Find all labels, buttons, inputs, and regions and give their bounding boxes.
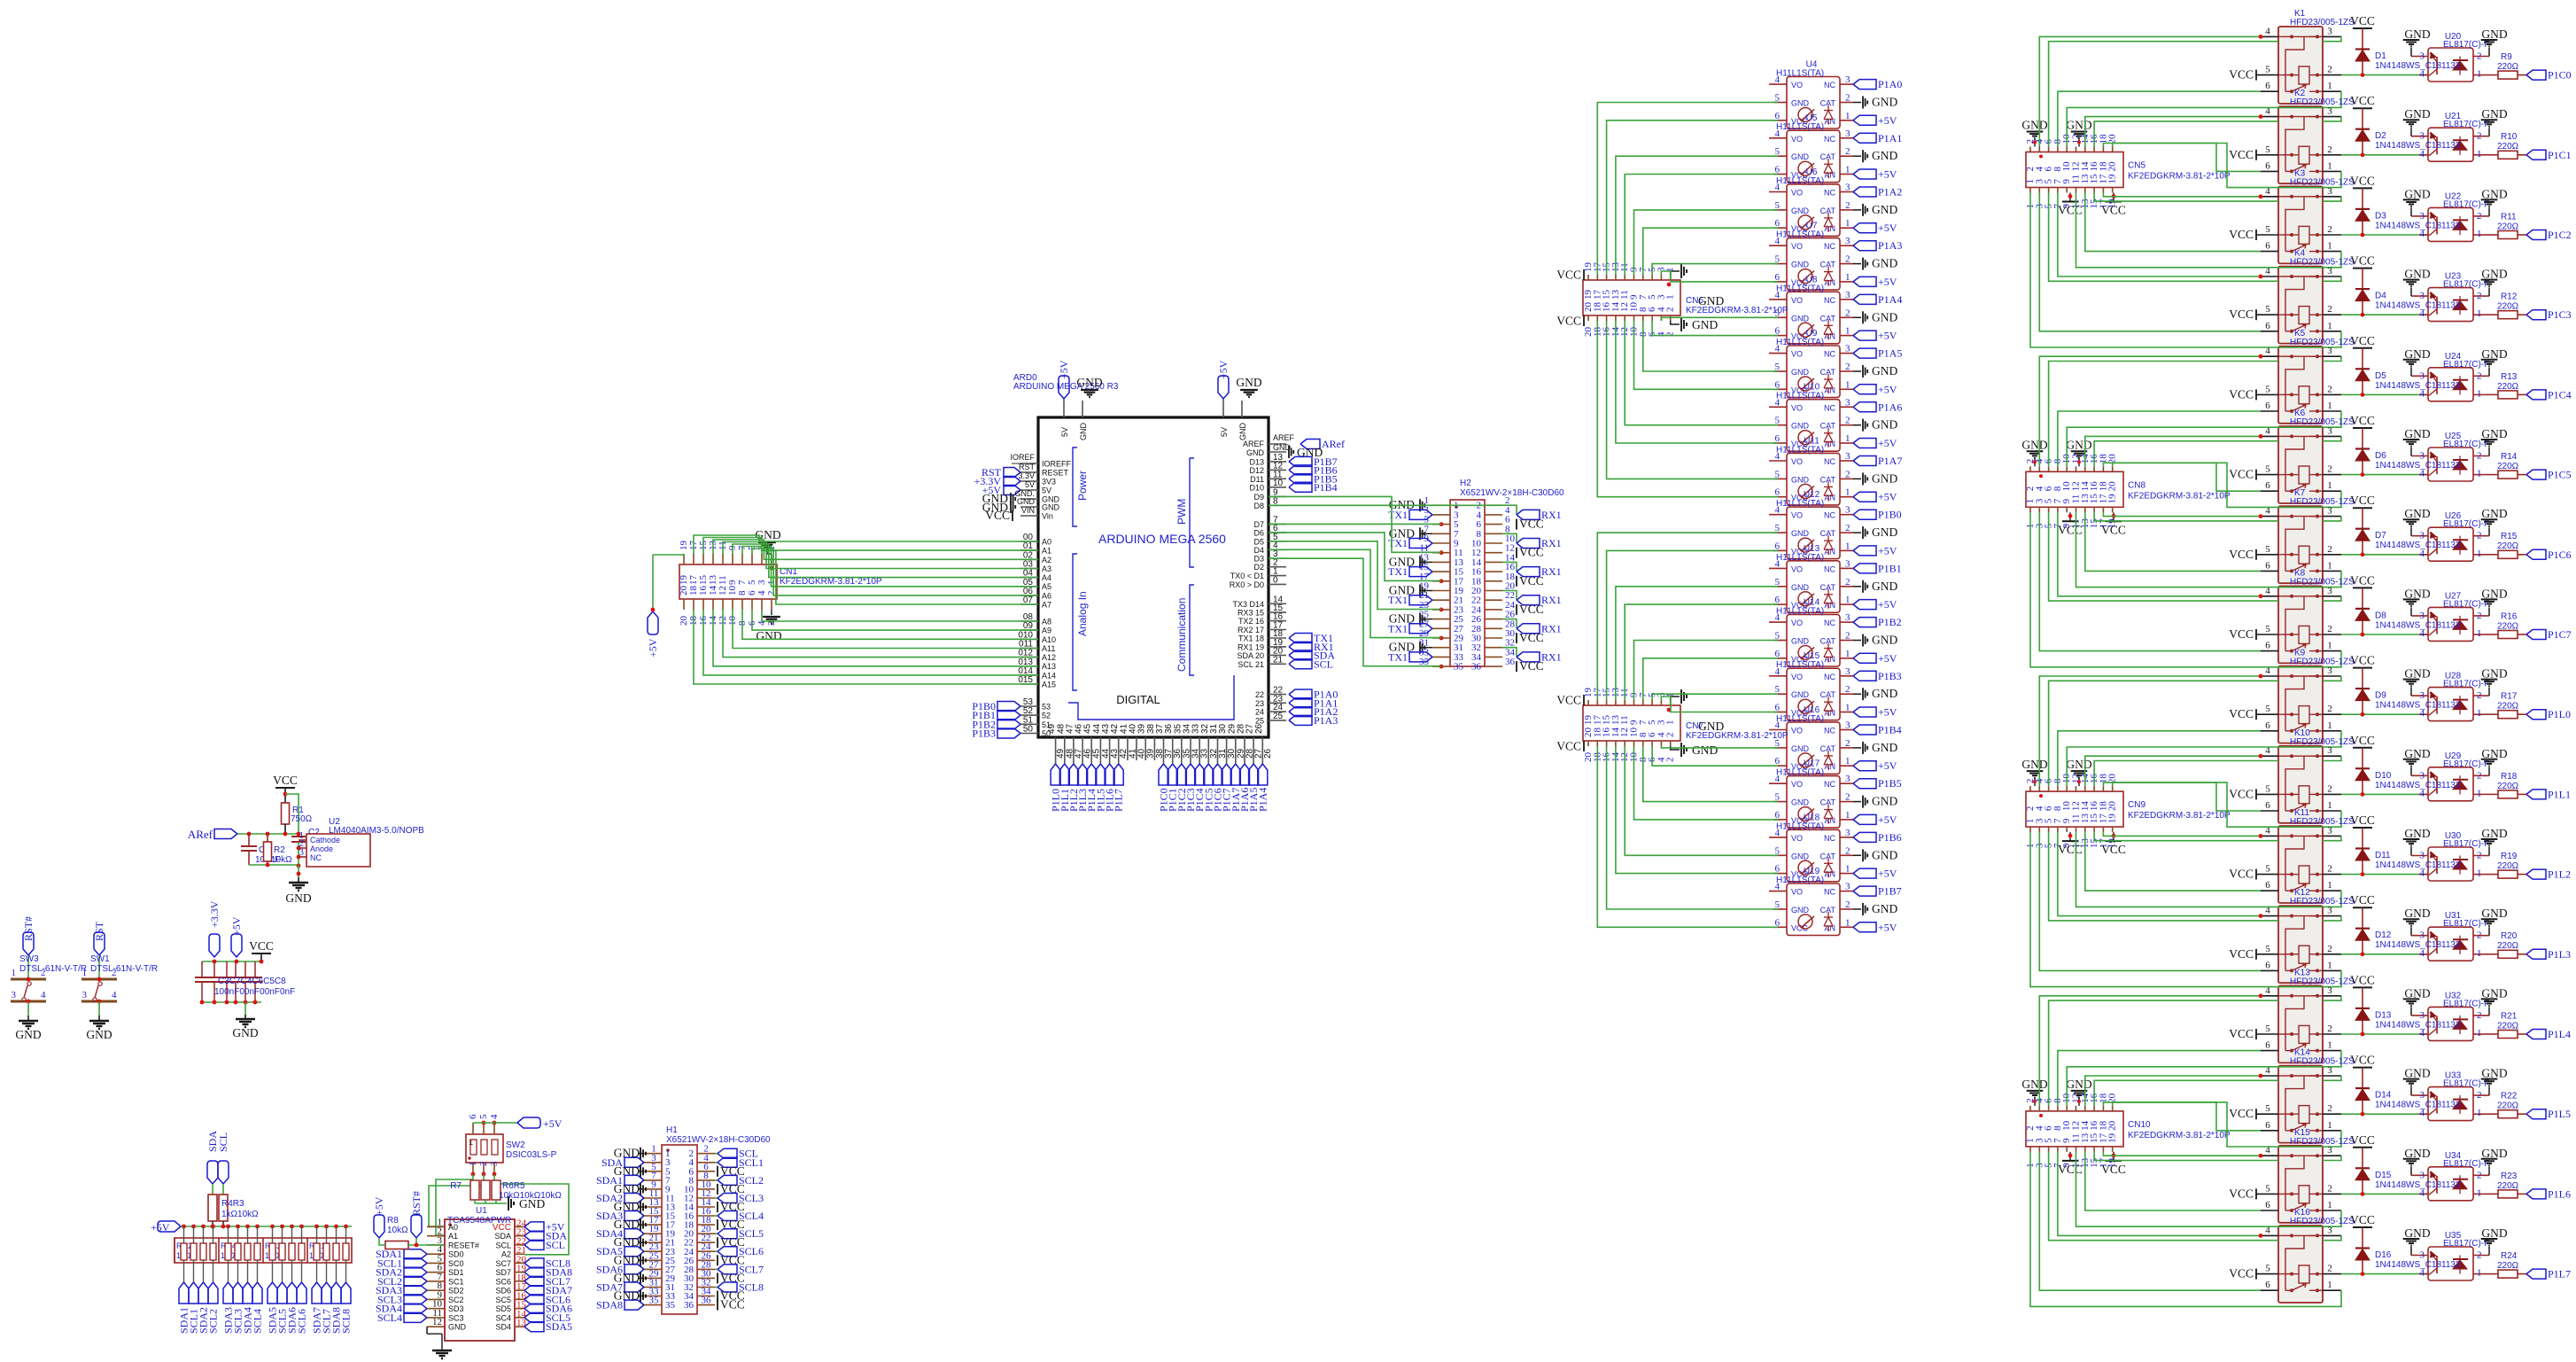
- svg-text:220Ω: 220Ω: [2497, 621, 2519, 631]
- CN6 pin 7 (top): [1642, 275, 1644, 280]
- svg-text:3: 3: [2327, 1065, 2332, 1076]
- CN8 pin 10 (top): [2066, 466, 2068, 471]
- power VCC (CN7 top): [1583, 695, 1585, 705]
- svg-text:+5V: +5V: [1878, 437, 1897, 449]
- svg-text:1: 1: [2477, 708, 2482, 719]
- H2 pin 4 (right): [1485, 514, 1502, 516]
- svg-text:4: 4: [1775, 774, 1781, 784]
- U34 pin 1: [2473, 1193, 2484, 1195]
- svg-text:3: 3: [1845, 505, 1851, 516]
- svg-text:3: 3: [1845, 666, 1851, 677]
- svg-text:1: 1: [1845, 703, 1851, 713]
- H1 pin 21 (left): [644, 1241, 662, 1243]
- U8 pin 1 AN: [1840, 335, 1853, 337]
- resistor element SCL1: [193, 1226, 195, 1243]
- CN6 pin 15 (top): [1606, 275, 1608, 280]
- svg-text:R19: R19: [2501, 852, 2518, 861]
- U22 internal LED: [2453, 219, 2468, 221]
- svg-text:VCC: VCC: [2350, 1213, 2375, 1226]
- U21 pin 4: [2419, 154, 2428, 156]
- svg-text:VCC: VCC: [1519, 603, 1544, 616]
- svg-text:220Ω: 220Ω: [2497, 1261, 2519, 1271]
- net flag P1C7: [1226, 760, 1228, 764]
- svg-text:2: 2: [1845, 523, 1851, 533]
- H2 pin 25 (left): [1432, 619, 1450, 620]
- net flag P1A5: [1253, 760, 1254, 764]
- U25 internal LED: [2453, 459, 2468, 461]
- resistor R13 220ohm: [2484, 393, 2498, 395]
- arduino pin 48 (bottom): [1064, 737, 1066, 760]
- svg-text:VO: VO: [1791, 727, 1803, 735]
- U15 internal symbol: [1798, 699, 1812, 713]
- svg-text:A2: A2: [501, 1250, 511, 1259]
- svg-text:GND: GND: [2404, 347, 2430, 361]
- svg-text:3: 3: [1845, 183, 1851, 193]
- svg-text:220Ω: 220Ω: [2497, 1181, 2519, 1191]
- U12 pin 4 VO: [1769, 514, 1787, 516]
- K5 internal symbol: [2278, 355, 2292, 357]
- K2 internal symbol: [2278, 116, 2292, 118]
- svg-text:NC: NC: [1824, 834, 1835, 843]
- optocoupler U9 H11L1S(TA): [1787, 346, 1840, 398]
- CN6 pin 17 (top): [1596, 275, 1598, 280]
- power VCC (H1 pin 26): [717, 1255, 718, 1265]
- net flag P1L7: [2526, 1269, 2546, 1279]
- CN5 pin 14 (top): [2084, 147, 2086, 152]
- svg-text:D6: D6: [2375, 451, 2386, 461]
- svg-text:GND: GND: [1791, 906, 1810, 914]
- K7 pin 5: [2256, 554, 2278, 556]
- svg-text:4: 4: [1775, 720, 1781, 731]
- svg-text:35: 35: [1454, 662, 1464, 673]
- ground (H2 pin 1): [1420, 504, 1432, 506]
- CN8 pin 11 (bottom): [2076, 507, 2077, 512]
- net flag SDA3: [223, 1282, 233, 1304]
- svg-text:3: 3: [1845, 612, 1851, 623]
- power VCC (H2 pin 18): [1516, 576, 1517, 587]
- CN7 pin 8 (bottom): [1642, 741, 1644, 746]
- wire RST# to switch: [27, 955, 29, 979]
- svg-text:1: 1: [2327, 1040, 2332, 1051]
- U31 pin 3: [2411, 935, 2428, 937]
- svg-text:SC4: SC4: [495, 1313, 511, 1322]
- svg-text:SC3: SC3: [448, 1313, 464, 1322]
- svg-text:EL817(C)-F: EL817(C)-F: [2443, 360, 2489, 370]
- H2 pin 23 (left): [1432, 609, 1450, 611]
- svg-text:H11L1S(TA): H11L1S(TA): [1776, 768, 1824, 778]
- K13 pin 3: [2323, 995, 2341, 997]
- CN9 pin 13 (bottom): [2084, 827, 2086, 832]
- svg-text:Cathode: Cathode: [310, 836, 340, 844]
- svg-text:1kΩ10kΩ: 1kΩ10kΩ: [221, 1210, 259, 1219]
- svg-text:SC7: SC7: [495, 1259, 511, 1268]
- svg-text:VCC: VCC: [2350, 494, 2375, 507]
- svg-text:1N4148WS_C181133: 1N4148WS_C181133: [2375, 1260, 2461, 1270]
- net flag P1C3: [1190, 760, 1191, 764]
- svg-text:1N4148WS_C181133: 1N4148WS_C181133: [2375, 381, 2461, 391]
- svg-text:AN: AN: [1824, 224, 1835, 233]
- svg-text:6: 6: [2265, 401, 2270, 411]
- wire K14 pin2 to U33: [2341, 1113, 2430, 1115]
- svg-text:2: 2: [1845, 362, 1851, 372]
- svg-text:ARDUINO MEGA 2560 R3: ARDUINO MEGA 2560 R3: [1013, 382, 1119, 392]
- svg-text:R23: R23: [2501, 1171, 2518, 1181]
- relay K1 HFD23/005-1ZS: [2278, 27, 2323, 104]
- svg-text:AN: AN: [1824, 601, 1835, 610]
- U15 pin 6 VCC: [1773, 712, 1787, 713]
- wire bus CN1 bottom pins to A8-A15: [694, 610, 1038, 684]
- K13 pin 5: [2256, 1033, 2278, 1035]
- connector CN9 KF2EDGKRM-3.81-2*10P: [2026, 791, 2123, 827]
- U1 pin 1 A0: [427, 1226, 445, 1227]
- relay K7 HFD23/005-1ZS: [2278, 506, 2323, 583]
- arduino pin 45 (bottom): [1090, 737, 1092, 760]
- CN5 pin 16 (top): [2093, 147, 2095, 152]
- wire K8 pin2 to U27: [2341, 634, 2430, 635]
- CN10 pin 18 (top): [2102, 1106, 2104, 1111]
- K10 pin 1: [2323, 810, 2341, 812]
- svg-text:VO: VO: [1791, 619, 1803, 627]
- svg-text:3V3: 3V3: [1042, 478, 1056, 486]
- CN7 pin 10 (bottom): [1633, 741, 1635, 746]
- svg-text:P1A2: P1A2: [1878, 186, 1902, 198]
- U9 internal symbol: [1798, 377, 1812, 391]
- K11 pin 1: [2323, 890, 2341, 891]
- K14 pin 3: [2323, 1075, 2341, 1077]
- svg-text:D3: D3: [2375, 211, 2386, 221]
- net flag P1C3: [2526, 310, 2546, 320]
- svg-text:NC: NC: [1824, 888, 1835, 897]
- U32 internal phototransistor: [2436, 1016, 2438, 1033]
- U14 pin 2 CAT: [1840, 640, 1853, 642]
- ground (H1 pin 13): [638, 1206, 644, 1208]
- H2 pin 7 (left): [1432, 533, 1450, 534]
- ground (CN6 bottom): [1671, 321, 1680, 324]
- svg-text:GND: GND: [1872, 149, 1897, 162]
- U1 pin 23 SDA: [515, 1235, 524, 1237]
- K16 internal symbol: [2278, 1234, 2292, 1236]
- arduino pin 37 (bottom): [1163, 737, 1165, 760]
- H2 pin 5 (left): [1432, 524, 1450, 525]
- section bracket Digital: [1068, 675, 1234, 720]
- K4 pin 4: [2261, 276, 2278, 277]
- wire VCC to R1: [284, 788, 286, 804]
- svg-text:GND: GND: [2481, 667, 2507, 681]
- CN9 pin 3 (bottom): [2038, 827, 2040, 832]
- svg-text:5: 5: [2265, 1183, 2270, 1194]
- CN10 pin 20 (top): [2112, 1106, 2114, 1111]
- ground (U19): [1853, 908, 1861, 910]
- ground (H2 pin 7): [1420, 533, 1432, 534]
- arduino pin 3: [1269, 557, 1286, 559]
- svg-text:P1B6: P1B6: [1878, 831, 1902, 844]
- CN6 pin 10 (bottom): [1633, 315, 1635, 321]
- svg-text:2: 2: [2327, 704, 2332, 714]
- net flag SCL2: [208, 1282, 218, 1304]
- optocoupler U15 H11L1S(TA): [1787, 668, 1840, 720]
- svg-text:NC: NC: [1824, 242, 1835, 251]
- U16 pin 3 NC: [1840, 729, 1853, 731]
- net flag P1B1: [997, 711, 1020, 720]
- svg-text:DTSL-61N-V-T/R: DTSL-61N-V-T/R: [90, 964, 158, 974]
- svg-text:AN: AN: [1824, 655, 1835, 664]
- svg-text:VCC: VCC: [1556, 694, 1581, 707]
- net flag P1A0: [1289, 689, 1312, 699]
- svg-text:3: 3: [82, 990, 88, 1000]
- svg-text:1: 1: [2327, 81, 2332, 91]
- svg-text:2: 2: [1665, 733, 1676, 738]
- U1 pin 6 SD1: [427, 1272, 445, 1273]
- ground (U4): [1853, 102, 1861, 104]
- U29 pin 2: [2473, 774, 2489, 776]
- arduino pin A3: [1020, 568, 1038, 570]
- svg-text:GND: GND: [2404, 986, 2430, 1000]
- U1 pin 18 SC6: [515, 1280, 524, 1282]
- svg-text:VCC: VCC: [2229, 1027, 2254, 1040]
- wire ARef node: [237, 833, 299, 835]
- svg-text:CN8: CN8: [2128, 480, 2145, 490]
- CN1 pin 11 (top): [722, 554, 724, 564]
- wire K6 pin1 wrap: [2323, 491, 2341, 507]
- U18 pin 4 VO: [1769, 837, 1787, 838]
- U30 internal phototransistor: [2436, 856, 2438, 874]
- net flag P1L4: [1090, 760, 1092, 764]
- svg-text:VCC: VCC: [1519, 631, 1544, 644]
- svg-text:4: 4: [1775, 666, 1781, 677]
- optocoupler U13 H11L1S(TA): [1787, 561, 1840, 613]
- svg-text:TX2 16: TX2 16: [1238, 617, 1264, 626]
- svg-text:CN9: CN9: [2128, 800, 2145, 810]
- svg-text:R6R5: R6R5: [502, 1181, 525, 1191]
- U29 internal phototransistor: [2436, 776, 2438, 794]
- H1 pin 14 (right): [697, 1206, 715, 1208]
- svg-text:1: 1: [2477, 469, 2482, 479]
- arduino pin 44 (bottom): [1099, 737, 1101, 760]
- svg-text:2: 2: [2477, 211, 2482, 222]
- wire junction H2 pin 5: [1439, 522, 1444, 526]
- net flag P1C4: [2526, 390, 2546, 400]
- H1 pin 8 (right): [697, 1179, 715, 1181]
- U27 pin 1: [2473, 634, 2484, 635]
- svg-text:2: 2: [1845, 631, 1851, 642]
- svg-text:2: 2: [2477, 51, 2482, 62]
- U4 pin 3 NC: [1840, 83, 1853, 85]
- svg-text:1: 1: [1845, 487, 1851, 498]
- wire K10 pin1 wrap: [2323, 811, 2341, 827]
- K13 pin 2: [2323, 1033, 2341, 1035]
- U35 internal phototransistor: [2436, 1256, 2438, 1273]
- svg-text:HFD23/005-1ZS: HFD23/005-1ZS: [2290, 897, 2355, 907]
- resistor R10 220ohm: [2484, 154, 2498, 156]
- svg-text:X6521WV-2×18H-C30D60: X6521WV-2×18H-C30D60: [1460, 488, 1564, 498]
- ground (arduino right): [1288, 446, 1290, 458]
- diode D5 1N4148WS_C181133: [2355, 368, 2370, 370]
- svg-text:2: 2: [2477, 611, 2482, 621]
- net flag +5V (U6): [1853, 223, 1876, 233]
- svg-text:19: 19: [2107, 494, 2118, 504]
- CN8 pin 8 (top): [2057, 466, 2059, 471]
- net flag SCL8 (H1): [715, 1287, 718, 1288]
- svg-text:R11: R11: [2501, 212, 2517, 222]
- H1 pin 35 (left): [644, 1304, 662, 1306]
- svg-text:4: 4: [1775, 74, 1781, 85]
- wire D6 to H2 pin17: [1269, 533, 1441, 581]
- net flag P1A0: [1853, 80, 1876, 90]
- svg-text:SD0: SD0: [448, 1250, 464, 1259]
- svg-text:6: 6: [2265, 880, 2270, 891]
- IC ARD0 ARDUINO MEGA 2560 R3: [1038, 417, 1269, 737]
- wire junction H2 pin 35: [1439, 665, 1444, 669]
- ground (SW3): [19, 1020, 38, 1022]
- wire K15 pin3 wrap: [2323, 1156, 2341, 1160]
- U14 pin 6 VCC: [1773, 658, 1787, 659]
- svg-text:1: 1: [468, 1162, 478, 1167]
- net flag +5V (U18): [1853, 868, 1876, 878]
- wire junction H2 pin 11: [1439, 550, 1444, 555]
- svg-text:VCC: VCC: [1519, 659, 1544, 673]
- U24 internal phototransistor: [2436, 377, 2438, 394]
- power VCC (K10 coil): [2255, 789, 2257, 799]
- wire D5 to H2 pin23: [1269, 541, 1441, 610]
- svg-text:GND: GND: [1791, 422, 1810, 431]
- svg-text:24: 24: [1255, 708, 1264, 717]
- svg-text:HFD23/005-1ZS: HFD23/005-1ZS: [2290, 258, 2355, 268]
- ground (U16): [1853, 747, 1861, 749]
- U19 pin 4 VO: [1769, 891, 1787, 892]
- U33 pin 1: [2473, 1113, 2484, 1115]
- svg-text:SD4: SD4: [495, 1323, 511, 1332]
- svg-text:LM4040AIM3-5.0/NOPB: LM4040AIM3-5.0/NOPB: [329, 826, 424, 836]
- H2 pin 19 (left): [1432, 590, 1450, 592]
- svg-text:VCC: VCC: [2229, 68, 2254, 82]
- svg-text:6: 6: [2265, 560, 2270, 571]
- power VCC (H1 pin 6): [717, 1166, 718, 1177]
- CN8 pin 7 (bottom): [2057, 507, 2059, 512]
- net flag +5V (U19): [1853, 922, 1876, 932]
- svg-text:P1A1: P1A1: [1878, 132, 1902, 144]
- wire bus CN10 to relays below: [2030, 1152, 2323, 1307]
- relay K12 HFD23/005-1ZS: [2278, 906, 2323, 983]
- K1 pin 3: [2323, 35, 2341, 37]
- svg-text:R14: R14: [2501, 452, 2518, 462]
- resistor R1: [282, 803, 290, 824]
- H2 pin 18 (right): [1485, 580, 1502, 582]
- section bracket Analog In: [1073, 554, 1077, 690]
- K16 pin 2: [2323, 1273, 2341, 1275]
- svg-text:GND: GND: [2481, 986, 2507, 1000]
- power VCC (CN8 bottom right): [2113, 512, 2114, 521]
- K15 internal symbol: [2278, 1155, 2292, 1156]
- H1 pin 30 (right): [697, 1277, 715, 1279]
- K6 pin 2: [2323, 474, 2341, 476]
- K11 pin 2: [2323, 874, 2341, 876]
- CN9 pin 2 (top): [2029, 786, 2031, 791]
- U8 pin 5 GND: [1773, 316, 1787, 318]
- H2 pin 29 (left): [1432, 637, 1450, 639]
- CN5 pin 18 (top): [2102, 147, 2104, 152]
- svg-text:A12: A12: [1042, 653, 1056, 662]
- power VCC (CN5 bottom right): [2113, 193, 2114, 202]
- K12 pin 6: [2261, 969, 2278, 971]
- K7 internal symbol: [2278, 516, 2292, 518]
- wire VCC to diode D8: [2362, 588, 2363, 634]
- CN7 pin 11 (top): [1624, 700, 1626, 705]
- net flag +5V (U4): [1853, 115, 1876, 125]
- K16 pin 4: [2261, 1234, 2278, 1236]
- svg-text:EL817(C)-F: EL817(C)-F: [2443, 999, 2489, 1008]
- wire SW2 pin3 to U1 A2: [494, 1174, 569, 1255]
- resistor network outer box: [175, 1238, 352, 1263]
- svg-text:GND: GND: [2481, 107, 2507, 121]
- svg-text:VCC: VCC: [2058, 1163, 2083, 1176]
- K15 pin 1: [2323, 1210, 2341, 1211]
- CN5 pin 3 (bottom): [2038, 188, 2040, 193]
- net flag P1C1: [2526, 150, 2546, 160]
- net flag SDA6: [287, 1282, 297, 1304]
- svg-text:D11: D11: [1250, 475, 1264, 484]
- svg-text:2: 2: [1845, 307, 1851, 318]
- net flag SDA2: [198, 1282, 208, 1304]
- H1 pin 29 (left): [644, 1277, 662, 1279]
- svg-text:2: 2: [2327, 464, 2332, 475]
- svg-text:GND: GND: [2481, 587, 2507, 600]
- wire H2 right jog pin 20: [1502, 591, 1517, 601]
- power VCC (H2 pin 30): [1516, 633, 1517, 643]
- net flag SCL2 (H1): [715, 1179, 718, 1181]
- CN5 pin 20 (top): [2112, 147, 2114, 152]
- svg-text:GND: GND: [1872, 418, 1897, 432]
- U1 pin 14 SC4: [515, 1317, 524, 1319]
- CN5 pin 12 (top): [2076, 147, 2077, 152]
- H1 pin 18 (right): [697, 1224, 715, 1226]
- svg-text:SDA 20: SDA 20: [1237, 651, 1264, 660]
- U33 pin 2: [2473, 1094, 2489, 1096]
- CN10 pin 10 (top): [2066, 1106, 2068, 1111]
- H1 pin 20 (right): [697, 1233, 715, 1234]
- svg-text:GND: GND: [1872, 257, 1897, 270]
- power VCC (H1 pin 36): [717, 1300, 718, 1311]
- resistor element SDA5: [272, 1226, 274, 1243]
- U5 pin 3 NC: [1840, 137, 1853, 139]
- CN7 pin 1 (top): [1670, 700, 1672, 705]
- CN5 pin 8 (top): [2057, 147, 2059, 152]
- svg-text:220Ω: 220Ω: [2497, 62, 2519, 72]
- svg-text:6: 6: [468, 1114, 478, 1119]
- svg-text:1: 1: [2477, 308, 2482, 319]
- arduino pin A4: [1020, 577, 1038, 579]
- svg-text:A4: A4: [1042, 573, 1051, 582]
- resistor R3: [219, 1195, 228, 1221]
- arduino pin A0: [1020, 541, 1038, 542]
- U20 pin 3: [2411, 56, 2428, 58]
- relay K3 HFD23/005-1ZS: [2278, 186, 2323, 263]
- svg-text:5: 5: [2265, 384, 2270, 394]
- CN5 pin 7 (bottom): [2057, 188, 2059, 193]
- svg-text:20: 20: [2107, 801, 2118, 812]
- K7 pin 6: [2261, 570, 2278, 572]
- diode D14 1N4148WS_C181133: [2355, 1087, 2370, 1089]
- K3 pin 3: [2323, 196, 2341, 198]
- ground (H1 pin 25): [638, 1259, 644, 1261]
- svg-text:NC: NC: [1824, 81, 1835, 90]
- U6 pin 2 CAT: [1840, 209, 1853, 211]
- wire K7 pin3 wrap: [2323, 517, 2341, 521]
- ground (H1 pin 17): [638, 1224, 644, 1226]
- svg-text:1N4148WS_C181133: 1N4148WS_C181133: [2375, 620, 2461, 630]
- svg-text:R12: R12: [2501, 292, 2518, 302]
- net flag +5V (SW2): [517, 1117, 540, 1128]
- optocoupler U6 H11L1S(TA): [1787, 184, 1840, 237]
